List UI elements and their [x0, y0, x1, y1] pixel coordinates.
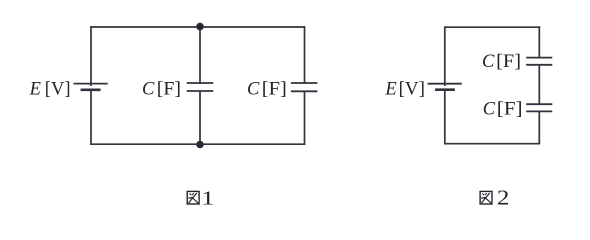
wire: fig2 right branch lower segment	[538, 111, 540, 144]
capacitor C (fig1 right) top plate	[291, 82, 318, 84]
battery E (fig1) short negative plate	[81, 89, 101, 92]
svg-text:[V]: [V]	[399, 79, 425, 99]
node: fig1 top junction dot	[196, 23, 204, 31]
wire: fig1 top rail	[90, 26, 305, 28]
svg-text:[F]: [F]	[497, 99, 523, 119]
label: E [V] (fig1 battery value)	[29, 79, 71, 99]
svg-text:E: E	[29, 79, 41, 99]
battery E (fig2) short negative plate	[435, 88, 455, 91]
label: E [V] (fig2 battery value)	[384, 79, 425, 99]
svg-text:1: 1	[201, 187, 214, 210]
label: C [F] (fig1 right capacitor value)	[247, 79, 287, 99]
wire: fig1 left branch lower segment	[90, 90, 92, 145]
svg-text:C: C	[142, 79, 155, 99]
wire: fig2 top rail	[444, 26, 540, 28]
wire: fig2 right branch upper segment	[538, 26, 540, 58]
battery E (fig2) long positive plate	[428, 83, 462, 85]
caption: 図2 kanji box (figure 2 caption)	[480, 191, 492, 204]
capacitor C (fig1 middle) bottom plate	[187, 90, 214, 92]
capacitor C (fig2 top) upper plate	[526, 57, 552, 59]
wire: fig1 right branch lower segment	[304, 91, 306, 145]
svg-text:[F]: [F]	[157, 79, 181, 99]
battery E (fig1) long positive plate	[74, 83, 108, 85]
svg-text:C: C	[483, 99, 496, 119]
svg-text:[V]: [V]	[45, 79, 71, 99]
capacitor C (fig1 middle) top plate	[187, 82, 214, 84]
wire: fig2 bottom rail	[444, 143, 540, 145]
capacitor C (fig2 top) lower plate	[526, 64, 552, 66]
svg-text:2: 2	[497, 185, 510, 209]
wire: fig1 middle branch lower segment	[199, 91, 201, 144]
svg-text:C: C	[247, 79, 260, 99]
svg-text:[F]: [F]	[496, 52, 521, 72]
svg-text:[F]: [F]	[262, 79, 287, 99]
wire: fig1 right branch upper segment	[304, 26, 306, 84]
svg-text:E: E	[384, 79, 396, 99]
wire: fig1 middle branch upper segment	[199, 27, 201, 84]
label: C [F] (fig1 middle capacitor value)	[142, 79, 181, 99]
node: fig1 bottom junction dot	[196, 141, 204, 149]
wire: fig2 right branch middle segment	[538, 65, 540, 105]
caption: 図1 kanji box (figure 1 caption)	[187, 191, 199, 204]
label: C [F] (fig2 bottom capacitor value)	[483, 99, 523, 119]
wire: fig2 left branch lower segment	[444, 90, 446, 145]
label: C [F] (fig2 top capacitor value)	[482, 52, 521, 72]
wire: fig1 left branch upper segment	[90, 26, 92, 86]
capacitor C (fig2 bottom) lower plate	[526, 110, 552, 112]
svg-text:C: C	[482, 52, 495, 72]
wire: fig1 bottom rail	[90, 143, 305, 145]
capacitor C (fig1 right) bottom plate	[291, 90, 318, 92]
capacitor C (fig2 bottom) upper plate	[526, 103, 552, 105]
wire: fig2 left branch upper segment	[444, 26, 446, 86]
